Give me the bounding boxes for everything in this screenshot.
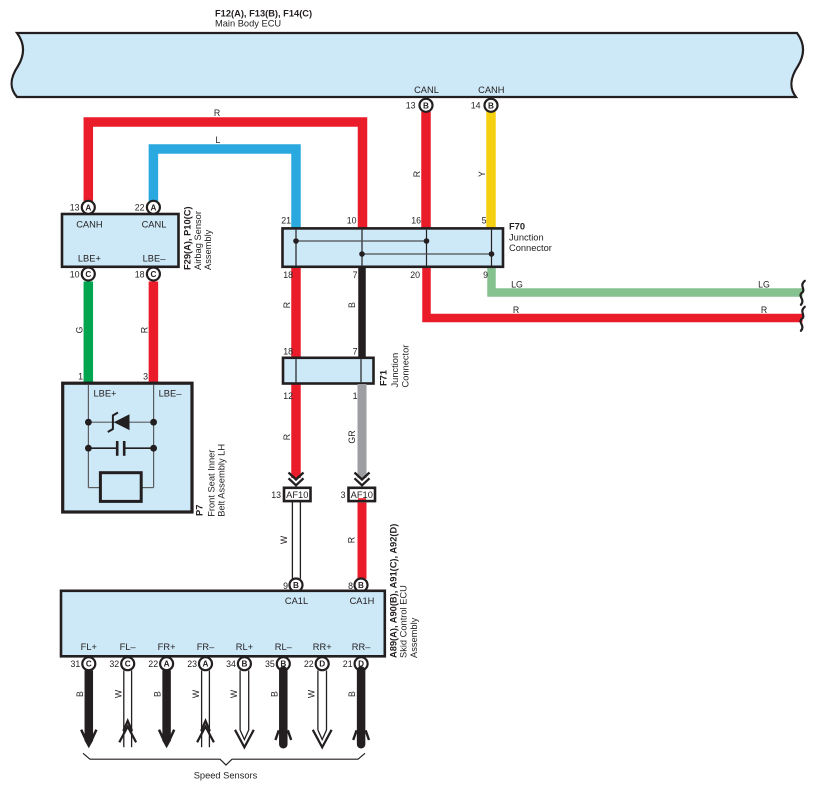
pin 22(A) xyxy=(135,201,160,214)
svg-text:Speed Sensors: Speed Sensors xyxy=(194,771,258,781)
pin 8(B) xyxy=(348,579,367,592)
wire diode row xyxy=(88,421,153,423)
svg-text:31: 31 xyxy=(71,659,81,669)
node rail LBE+ xyxy=(87,385,89,488)
svg-text:B: B xyxy=(241,660,247,669)
svg-text:B: B xyxy=(293,581,299,590)
pin 34(B) xyxy=(226,657,251,670)
wire capacitor row xyxy=(88,447,116,449)
svg-text:F12(A), F13(B), F14(C): F12(A), F13(B), F14(C) xyxy=(215,9,312,19)
svg-text:W: W xyxy=(191,689,201,698)
svg-text:14: 14 xyxy=(471,101,481,111)
junction dot xyxy=(150,419,157,426)
wire B FR+ down arrow xyxy=(159,671,174,749)
svg-text:13: 13 xyxy=(271,490,281,500)
break symbol LG wire right xyxy=(800,281,804,305)
svg-text:R: R xyxy=(412,171,422,177)
svg-text:CA1H: CA1H xyxy=(350,596,375,606)
wire to resistor element xyxy=(88,487,100,489)
svg-text:RL+: RL+ xyxy=(236,642,253,652)
svg-text:CANH: CANH xyxy=(76,219,102,229)
svg-text:13: 13 xyxy=(70,203,80,213)
svg-text:A: A xyxy=(164,660,170,669)
svg-text:Front Seat Inner: Front Seat Inner xyxy=(207,450,217,517)
svg-text:C: C xyxy=(125,660,131,669)
svg-text:C: C xyxy=(85,270,91,279)
svg-text:FL–: FL– xyxy=(120,642,137,652)
svg-text:18: 18 xyxy=(135,270,145,280)
wire B RL- up arrow xyxy=(275,671,291,745)
svg-text:C: C xyxy=(86,660,92,669)
pin 9(B) xyxy=(283,579,302,592)
svg-text:RR+: RR+ xyxy=(313,642,332,652)
pin 31(C) xyxy=(71,657,96,670)
pin 10(C) xyxy=(70,268,95,281)
svg-text:P7: P7 xyxy=(194,505,204,516)
pin 13(A) xyxy=(70,201,95,214)
svg-text:LG: LG xyxy=(758,280,770,290)
break symbol R wire right xyxy=(800,307,804,331)
svg-text:12: 12 xyxy=(283,391,293,401)
svg-text:Connector: Connector xyxy=(401,345,411,388)
wire W RR+ down arrow xyxy=(313,671,332,748)
junction dot xyxy=(150,445,157,452)
svg-text:3: 3 xyxy=(341,490,346,500)
svg-text:Junction: Junction xyxy=(509,233,544,243)
wire W RL+ down arrow xyxy=(235,671,254,748)
shield arrow into AF10 no.13 xyxy=(289,473,304,486)
zener diode D xyxy=(114,414,130,430)
svg-text:32: 32 xyxy=(109,659,119,669)
svg-text:W: W xyxy=(279,535,289,544)
svg-text:7: 7 xyxy=(353,347,358,357)
pin 14(B) xyxy=(471,99,498,112)
svg-text:Belt Assembly LH: Belt Assembly LH xyxy=(217,444,227,517)
pin 35(B) xyxy=(265,657,290,670)
wire G F29 pin10 to P7 pin1 xyxy=(84,282,94,384)
svg-text:20: 20 xyxy=(410,270,420,280)
svg-text:35: 35 xyxy=(265,659,275,669)
speed sensors brace xyxy=(83,753,365,765)
junction connector F70 xyxy=(283,228,504,266)
svg-text:Main Body ECU: Main Body ECU xyxy=(215,19,281,29)
svg-text:LBE–: LBE– xyxy=(159,389,183,399)
svg-text:22: 22 xyxy=(135,203,145,213)
svg-text:W: W xyxy=(307,689,317,698)
svg-text:Connector: Connector xyxy=(509,243,552,253)
svg-text:G: G xyxy=(75,326,85,333)
wire W FR- up arrow xyxy=(197,671,214,748)
svg-text:18: 18 xyxy=(283,270,293,280)
wire R AF10 to skid ECU pin8(B) xyxy=(358,503,367,579)
svg-text:R: R xyxy=(761,305,767,315)
svg-text:Y: Y xyxy=(477,171,487,177)
svg-text:10: 10 xyxy=(347,216,357,226)
wire Y from ECU pin14(B) to F70 pin5 xyxy=(486,112,496,229)
svg-text:LBE–: LBE– xyxy=(143,253,167,263)
svg-text:AF10: AF10 xyxy=(286,490,308,500)
svg-text:CANH: CANH xyxy=(478,85,504,95)
svg-text:R: R xyxy=(140,327,150,333)
svg-text:R: R xyxy=(513,305,519,315)
svg-text:W: W xyxy=(229,689,239,698)
resistor element box xyxy=(100,473,141,502)
svg-text:CA1L: CA1L xyxy=(285,596,308,606)
svg-text:A: A xyxy=(150,203,156,212)
svg-text:D: D xyxy=(319,660,325,669)
wire R CANH F29 pin13(A) to F70 pin10 xyxy=(88,122,362,229)
svg-text:F29(A), P10(C): F29(A), P10(C) xyxy=(183,206,193,270)
svg-text:LBE+: LBE+ xyxy=(78,253,101,263)
airbag sensor assembly F29/P10 box xyxy=(62,214,179,267)
svg-text:B: B xyxy=(488,101,494,110)
wire LG F70 pin9 to right edge xyxy=(492,266,803,293)
wire R from ECU pin13(B) to F70 pin16 xyxy=(421,112,431,229)
F70 internal bus CANL 21-16 xyxy=(296,240,427,242)
svg-text:B: B xyxy=(347,302,357,308)
svg-text:A: A xyxy=(203,660,209,669)
wire L CANL F29 pin22(A) to F70 pin21 xyxy=(153,149,296,229)
pin 18(C) xyxy=(135,268,160,281)
wire R F70 pin20 to right edge xyxy=(427,266,803,318)
svg-text:13: 13 xyxy=(406,101,416,111)
svg-text:LBE+: LBE+ xyxy=(93,389,116,399)
wire W FL- up arrow xyxy=(119,671,136,748)
svg-text:5: 5 xyxy=(482,216,487,226)
svg-text:L: L xyxy=(216,135,221,145)
svg-text:21: 21 xyxy=(343,659,353,669)
svg-text:Assembly: Assembly xyxy=(409,617,419,658)
svg-text:7: 7 xyxy=(353,270,358,280)
svg-text:3: 3 xyxy=(143,372,148,382)
pin 23(A) xyxy=(187,657,212,670)
pin 22(A) xyxy=(148,657,173,670)
red wire stub in AF10 xyxy=(358,498,366,500)
shield arrow into AF10 no.3 xyxy=(355,473,370,486)
svg-text:R: R xyxy=(347,537,357,543)
svg-text:R: R xyxy=(282,302,292,308)
svg-text:9: 9 xyxy=(483,270,488,280)
svg-text:1: 1 xyxy=(78,372,83,382)
svg-text:F71: F71 xyxy=(379,370,389,386)
svg-text:LG: LG xyxy=(511,280,523,290)
svg-text:34: 34 xyxy=(226,659,236,669)
svg-text:RL–: RL– xyxy=(275,642,293,652)
svg-text:RR–: RR– xyxy=(352,642,371,652)
pin 32(C) xyxy=(109,657,134,670)
wire B RR- up arrow xyxy=(353,671,369,745)
svg-text:B: B xyxy=(153,691,163,697)
svg-text:W: W xyxy=(113,689,123,698)
capacitor C xyxy=(116,441,119,456)
svg-text:B: B xyxy=(269,691,279,697)
svg-text:R: R xyxy=(214,108,220,118)
svg-text:FL+: FL+ xyxy=(81,642,97,652)
junction dot xyxy=(85,419,92,426)
wire B FL+ down arrow xyxy=(81,671,96,749)
svg-text:A89(A), A90(B), A91(C), A92(D): A89(A), A90(B), A91(C), A92(D) xyxy=(389,524,399,658)
svg-text:A: A xyxy=(85,203,91,212)
node rail LBE- xyxy=(153,385,155,488)
svg-text:Airbag Sensor: Airbag Sensor xyxy=(193,211,203,270)
svg-text:10: 10 xyxy=(70,270,80,280)
svg-text:B: B xyxy=(423,101,429,110)
svg-text:CANL: CANL xyxy=(414,85,439,95)
svg-text:Assembly: Assembly xyxy=(203,229,213,270)
svg-text:FR–: FR– xyxy=(197,642,215,652)
svg-text:B: B xyxy=(347,691,357,697)
svg-text:B: B xyxy=(358,581,364,590)
pin 22(D) xyxy=(304,657,329,670)
wire R F29 pin18 to P7 pin3 xyxy=(149,282,159,384)
svg-text:22: 22 xyxy=(304,659,314,669)
wire W AF10 to skid ECU pin9(B) xyxy=(292,501,300,579)
wire B F70 pin7 to F71 pin7 xyxy=(358,266,366,358)
svg-text:22: 22 xyxy=(148,659,158,669)
junction dot xyxy=(85,445,92,452)
svg-text:FR+: FR+ xyxy=(158,642,176,652)
front seat inner belt assembly P7 box xyxy=(63,383,192,512)
Main Body ECU band xyxy=(11,33,803,97)
svg-text:GR: GR xyxy=(347,430,357,443)
wire R F70 pin18 through F71 pin18/12 to AF10 xyxy=(291,266,301,478)
svg-text:R: R xyxy=(282,434,292,440)
svg-text:B: B xyxy=(75,691,85,697)
svg-text:21: 21 xyxy=(281,216,291,226)
svg-text:F70: F70 xyxy=(509,222,525,232)
F70 internal bus CANH 10-5 xyxy=(362,253,492,255)
skid control ECU A89-A92 box xyxy=(61,591,385,657)
connector AF10 pin 3 xyxy=(341,488,375,501)
svg-text:23: 23 xyxy=(187,659,197,669)
svg-text:C: C xyxy=(150,270,156,279)
wire GR F71 pin1 to AF10 xyxy=(358,384,367,478)
svg-text:CANL: CANL xyxy=(142,219,167,229)
svg-text:16: 16 xyxy=(411,216,421,226)
connector AF10 pin 13 xyxy=(271,488,310,501)
svg-text:1: 1 xyxy=(353,391,358,401)
pin 13(B) xyxy=(406,99,433,112)
svg-text:Junction: Junction xyxy=(390,353,400,388)
svg-text:Skid Control ECU: Skid Control ECU xyxy=(399,585,409,658)
junction connector F71 xyxy=(283,358,374,384)
svg-text:18: 18 xyxy=(283,347,293,357)
pin 21(D) xyxy=(343,657,368,670)
